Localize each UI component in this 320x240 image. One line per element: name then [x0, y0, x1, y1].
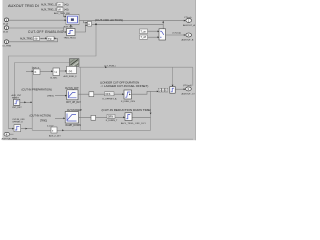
svg-text:AUXOUT_A: AUXOUT_A	[183, 24, 195, 27]
svg-text:B_SEL: B_SEL	[51, 78, 59, 80]
svg-text:AUXOUT TRIG DI: AUXOUT TRIG DI	[8, 4, 39, 8]
label above delay box U1	[47, 125, 54, 127]
text (CUT-IN ACTION)	[30, 114, 52, 118]
label under F1	[64, 75, 78, 78]
ramp block B3	[65, 112, 78, 123]
title AUXOUT TRIG DI	[8, 4, 39, 8]
svg-text:(u): (u)	[69, 69, 73, 73]
label above B4	[12, 119, 25, 123]
wire box A to box B	[40, 70, 53, 72]
constant C2	[140, 35, 148, 39]
label above block B6	[12, 94, 22, 99]
branch wire into O1	[84, 21, 88, 24]
text (LONGER CUT-OFF DURATION	[100, 80, 139, 84]
wire B4 output	[21, 128, 33, 130]
wire B1 output chain	[78, 91, 158, 94]
arrow into 888 row	[157, 91, 159, 93]
small box A	[34, 69, 41, 75]
svg-text:off: off	[58, 8, 61, 11]
svg-text:TRIG_HOLD: TRIG_HOLD	[64, 38, 77, 40]
svg-text:(=1): (=1)	[64, 3, 69, 6]
label above S1	[54, 12, 71, 15]
wire S1 output to outport 1	[79, 20, 186, 22]
label under B6	[12, 107, 22, 109]
label under S1	[64, 25, 74, 28]
svg-text:(TRIG): (TRIG)	[47, 96, 54, 98]
svg-text:K_DURN_T: K_DURN_T	[106, 120, 118, 122]
junction box J2	[91, 115, 96, 120]
bottom bus wire y131	[32, 129, 150, 131]
tag label row 1	[41, 2, 69, 6]
label under B1	[66, 102, 81, 104]
svg-text:T_off: T_off	[141, 36, 147, 39]
outport 4 bottom left	[2, 132, 18, 140]
svg-text:AUX_TRIG_OFF_DLY: AUX_TRIG_OFF_DLY	[121, 122, 146, 125]
svg-text:AUX_SW: AUX_SW	[64, 25, 74, 28]
arrow on bottom bus	[62, 129, 64, 131]
svg-text:AUXOUT_CT: AUXOUT_CT	[182, 92, 196, 95]
wire B6 output to bus	[20, 101, 32, 103]
offset block B4	[14, 125, 21, 132]
inport 3	[3, 40, 12, 48]
label under U1	[49, 135, 61, 138]
svg-text:(CT(rst)): (CT(rst))	[173, 31, 182, 34]
label above B1	[65, 88, 79, 90]
ramp block B1	[67, 90, 78, 100]
wire B3 output chain	[79, 116, 151, 118]
wire down to outport 3	[192, 67, 194, 86]
svg-text:T_on: T_on	[141, 30, 147, 33]
small box B	[53, 68, 60, 76]
wire F1 output long to right	[79, 66, 193, 68]
wire C1 to S2	[148, 31, 160, 33]
from tag label above B3 wire	[40, 120, 47, 123]
wire into box A	[26, 70, 34, 72]
svg-text:K_OFFSET_A: K_OFFSET_A	[103, 97, 118, 100]
inport 2	[3, 26, 9, 34]
label above box A	[33, 67, 40, 70]
wire label on long wire	[104, 66, 115, 69]
converter block D1	[170, 87, 175, 94]
text CUT-OFF ENABLING	[28, 30, 64, 34]
wire W1 into B4	[9, 128, 15, 130]
svg-text:DI_B: DI_B	[3, 32, 8, 34]
label under B2	[121, 101, 136, 103]
wire inport3 to row3 junction	[9, 38, 58, 42]
routed wire vertical x32	[31, 67, 33, 131]
svg-text:[TRIG]: [TRIG]	[40, 120, 47, 123]
switch S2	[159, 29, 166, 40]
svg-text:AUXOUT_TRIG: AUXOUT_TRIG	[2, 137, 18, 140]
routed wire W1 left loop from O1	[9, 23, 97, 128]
wire B from O1	[92, 23, 163, 25]
svg-text:AUX_TRIG_ON: AUX_TRIG_ON	[41, 3, 59, 6]
vertical wire x150.6	[150, 91, 152, 130]
counter block B6	[14, 99, 20, 105]
svg-text:OFS: OFS	[106, 94, 111, 96]
label under G2	[106, 120, 118, 122]
svg-text:CNT_RST: CNT_RST	[12, 107, 22, 109]
label under B3	[66, 124, 82, 127]
wire S2 to outport 2	[166, 34, 186, 36]
arrow into B2	[122, 93, 124, 95]
wire inport1 to S1	[9, 19, 66, 21]
function block F1	[67, 66, 77, 73]
svg-text:AUXOUT_B: AUXOUT_B	[182, 39, 194, 42]
wire R1 up to S1	[70, 24, 72, 28]
svg-text:DI_TRIG: DI_TRIG	[3, 45, 12, 47]
relay R1	[67, 29, 76, 36]
outport 1	[183, 16, 195, 27]
routed wire W2 loop	[15, 63, 70, 100]
label under R1	[64, 38, 77, 40]
wire from outport4	[10, 133, 14, 135]
svg-text:K_FUEL_OFS: K_FUEL_OFS	[121, 101, 136, 103]
text (CUT-IN PREPARATION)	[22, 88, 52, 92]
svg-text:(CUT-IN ACTION): (CUT-IN ACTION)	[30, 114, 52, 118]
svg-text:DRN: DRN	[108, 116, 113, 118]
digit box row	[158, 88, 167, 92]
label under B5	[121, 122, 146, 125]
wire down to converter D1	[172, 67, 174, 86]
svg-text:CUT-OFF ENABLING: CUT-OFF ENABLING	[28, 30, 64, 34]
diagram background panel	[0, 0, 200, 144]
tag label row 3	[20, 36, 54, 40]
svg-text:-> LARGER CUT-IN FUEL OFFSET): -> LARGER CUT-IN FUEL OFFSET)	[101, 84, 149, 88]
svg-text:AUX_FUEL_F: AUX_FUEL_F	[64, 75, 78, 78]
wire into B3	[55, 117, 65, 119]
routed wire vertical x80.7 lower	[80, 67, 82, 130]
delay box U1 on bottom bus	[51, 127, 57, 133]
label under box B	[51, 78, 59, 80]
wire from tag row to switch S1	[64, 11, 67, 17]
svg-text:DI_A: DI_A	[3, 23, 8, 26]
svg-text:(CUT-IN REDUCTION DURN TIME): (CUT-IN REDUCTION DURN TIME)	[102, 108, 152, 112]
label under G1	[103, 97, 118, 100]
goto tag G2	[107, 114, 115, 118]
lookup block B2	[124, 90, 132, 99]
wire after box2	[54, 37, 58, 39]
text LARGER CUT-IN FUEL OFFSET)	[101, 84, 149, 88]
wire row3 box1 to box2	[40, 37, 48, 39]
wire box B to F1	[60, 70, 68, 72]
arrow into B5	[123, 116, 125, 118]
svg-text:OFFSET_K: OFFSET_K	[12, 122, 23, 124]
text (CUT-IN REDUCTION DURN TIME)	[102, 108, 152, 112]
textured source block T1	[70, 59, 80, 67]
logic block O1	[88, 22, 92, 27]
wire inport2 to relay R1	[9, 28, 67, 33]
inport 1	[3, 18, 9, 26]
wire R1 output into O1	[75, 24, 87, 32]
label above B3	[67, 109, 82, 112]
wire C2 to S2	[148, 36, 160, 38]
constant C1	[140, 29, 148, 34]
switch S1	[66, 15, 79, 25]
goto tag G1	[105, 92, 115, 96]
text (CUT-OFF ACTION)	[95, 18, 123, 22]
svg-text:(CUT-OFF ACTION): (CUT-OFF ACTION)	[95, 18, 123, 22]
tag label row 2	[41, 7, 69, 11]
junction vertical to S2 control	[162, 21, 164, 29]
svg-text:(CUT-IN PREPARATION): (CUT-IN PREPARATION)	[22, 88, 52, 92]
svg-text:CUT-IN_CNT: CUT-IN_CNT	[65, 88, 79, 90]
wire into ramp B1	[55, 95, 67, 97]
delay block B5	[125, 113, 132, 121]
outport 3	[182, 84, 196, 95]
wire D1 to outport 3	[175, 88, 185, 90]
svg-text:AUX_Z_DLY: AUX_Z_DLY	[49, 135, 61, 138]
outport 2	[173, 31, 194, 41]
svg-text:K: K	[35, 70, 37, 74]
svg-text:RAMP_DOWN: RAMP_DOWN	[66, 124, 82, 127]
svg-text:(CT(out)): (CT(out))	[183, 84, 192, 87]
svg-text:CNT_UP_DLY: CNT_UP_DLY	[66, 102, 81, 104]
svg-text:(=0): (=0)	[64, 8, 69, 11]
junction box J1	[89, 92, 94, 97]
wire label TRIG above B1 input	[47, 96, 54, 98]
